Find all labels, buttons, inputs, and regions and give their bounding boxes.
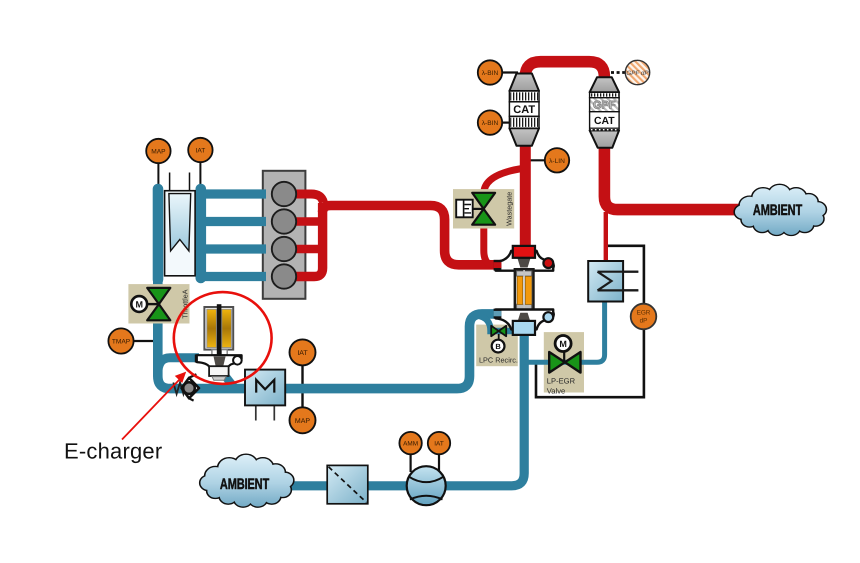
sensor stem IAT3 [438, 450, 440, 472]
svg-text:λ-BIN: λ-BIN [482, 120, 499, 127]
E-charger volute [195, 354, 242, 380]
sensor MAP [146, 139, 170, 163]
sensor lambda-LIN [545, 148, 569, 172]
LP-EGR Valve box [544, 332, 584, 395]
svg-text:IAT: IAT [196, 148, 206, 155]
sensor stem lambda-BIN lower [500, 121, 511, 123]
turbine inlet square [513, 246, 535, 258]
pipe LPC recirc [477, 316, 514, 332]
pipe exhaust collector [288, 203, 323, 277]
pipe intercooler left tank [153, 189, 164, 280]
svg-text:AMBIENT: AMBIENT [753, 202, 803, 219]
svg-text:TMAP: TMAP [112, 339, 131, 346]
intercooler inlet lines [170, 173, 190, 193]
catalyst CAT1 [509, 74, 539, 146]
pipe turbine to CAT [520, 144, 531, 249]
pipe e-charger branch [158, 358, 199, 374]
pipe GPF to ambient [604, 144, 740, 210]
turbine inlet stub [494, 260, 502, 271]
EGR cooler [588, 261, 638, 302]
svg-text:AMM: AMM [403, 441, 418, 448]
cylinder 1 [272, 182, 296, 206]
pipe exhaust runner 3 [288, 245, 323, 253]
svg-text:λ-LIN: λ-LIN [549, 158, 565, 165]
EGR cooler tubes [598, 272, 639, 291]
pipe exhaust main to turbine [323, 206, 495, 265]
LP-EGR motor M [555, 336, 571, 352]
svg-text:Wastegate: Wastegate [505, 192, 514, 226]
pipe e-charger outlet diagonal [223, 373, 237, 391]
intercooler [165, 191, 196, 276]
svg-text:λ-BIN: λ-BIN [482, 70, 499, 77]
svg-text:LP-EGR: LP-EGR [547, 376, 576, 385]
pipe intake bottom run [287, 333, 524, 486]
sensor IAT3 [428, 432, 450, 454]
LP-EGR valve [549, 351, 580, 373]
sensor MAP2 [290, 407, 316, 433]
svg-text:IAT: IAT [297, 350, 308, 357]
sensor lambda-BIN upper [478, 60, 502, 84]
cylinder 3 [272, 237, 296, 261]
sensor IAT2 [290, 339, 316, 365]
svg-text:CAT: CAT [594, 116, 615, 127]
pipe intake runner 1 [200, 189, 266, 198]
svg-text:MAP: MAP [151, 149, 166, 156]
compressor volute [496, 310, 554, 330]
E-charger motor [204, 304, 233, 355]
catalyst GPF CAT2 [590, 77, 620, 147]
sensor stem MAP [157, 160, 159, 191]
wastegate actuator [456, 200, 483, 218]
cylinder 4 [272, 264, 296, 288]
wastegate valve [472, 193, 495, 225]
svg-text:Valve: Valve [547, 386, 565, 395]
LPC recirc valve [491, 326, 506, 340]
pipe exhaust runner 2 [288, 217, 323, 225]
sensor AMM [399, 432, 421, 454]
sensor lambda-BIN lower [478, 110, 502, 134]
EGR dP measurement loop [536, 246, 644, 397]
pipe intake runner 3 [200, 244, 266, 253]
svg-text:dP: dP [640, 318, 648, 325]
svg-text:EGR: EGR [637, 310, 651, 317]
pipe exhaust runner 1 [288, 194, 324, 203]
svg-text:AMBIENT: AMBIENT [220, 476, 270, 493]
wastegate box [453, 189, 514, 228]
pipe intake runner 4 [200, 272, 266, 281]
WCAC legs [256, 405, 274, 421]
sensor stem IAT2-MAP2 [301, 361, 303, 410]
svg-text:LPC Recirc.: LPC Recirc. [479, 356, 518, 365]
svg-text:GPF: GPF [593, 100, 616, 112]
cylinder 2 [272, 209, 296, 233]
sensor stem AMM [410, 450, 412, 472]
pipe LP-EGR branch [524, 299, 605, 362]
LPC recirc B motor [492, 340, 505, 353]
sensor GPF dP [625, 60, 649, 84]
annotation text E-charger [64, 439, 162, 464]
svg-text:MAP: MAP [295, 418, 311, 425]
sensor stem GPF dP dotted [611, 71, 626, 74]
throttle box ThrottleA [128, 284, 189, 323]
svg-text:M: M [559, 339, 567, 349]
turbine volute [496, 251, 554, 271]
pipe wastegate bypass [484, 169, 522, 265]
check valve [173, 374, 199, 400]
sensor TMAP [108, 328, 133, 353]
svg-text:E-charger: E-charger [64, 439, 162, 464]
pipe intercooler right tank [196, 189, 207, 278]
turbo shaft cartridge [515, 269, 534, 310]
compressor inlet stub [494, 309, 502, 319]
svg-text:IAT: IAT [434, 441, 444, 448]
svg-text:CAT: CAT [513, 104, 535, 116]
sensor EGR dP [631, 304, 657, 330]
sensor IAT [188, 138, 212, 162]
air filter [327, 465, 368, 503]
pipe intake runner 2 [200, 217, 266, 226]
AMM ball [407, 466, 446, 505]
pipe EGR takeoff [604, 212, 608, 263]
compressor outlet square [513, 321, 535, 335]
svg-text:M: M [135, 299, 143, 309]
annotation arrow [122, 372, 186, 440]
sensor stem IAT [199, 160, 201, 191]
pipe CAT top hook [525, 62, 604, 82]
engine block [263, 171, 306, 299]
LPC Recirc box [476, 325, 518, 367]
sensor stem lambda-BIN upper [500, 71, 518, 73]
throttle valve [146, 288, 170, 320]
cloud ambient right [735, 185, 826, 235]
pipe compressor-out to throttle [158, 272, 497, 389]
svg-text:GPF dP: GPF dP [626, 70, 649, 77]
svg-text:B: B [495, 342, 501, 351]
sensor stem TMAP [131, 340, 154, 342]
throttle motor M [131, 296, 147, 312]
cloud ambient left [200, 455, 293, 507]
WCAC charge cooler [245, 370, 285, 406]
sensor stem lambda-LIN [530, 159, 548, 161]
annotation circle E-charger [174, 292, 272, 384]
